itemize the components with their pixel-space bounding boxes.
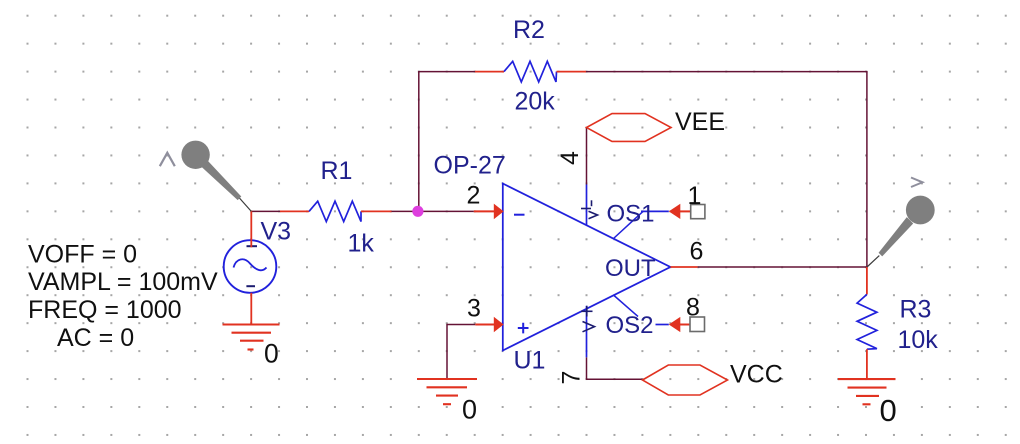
- voltage source V3 body: [224, 240, 277, 293]
- svg-text:FREQ = 1000: FREQ = 1000: [28, 296, 182, 324]
- wire: pin3 vertical to ground: [446, 324, 448, 379]
- input probe caret: [160, 153, 175, 166]
- svg-text:6: 6: [690, 238, 704, 266]
- svg-text:3: 3: [467, 295, 481, 323]
- svg-text:0: 0: [462, 395, 477, 425]
- op-amp plus sign: [518, 323, 529, 334]
- svg-text:20k: 20k: [515, 88, 556, 116]
- svg-text:VCC: VCC: [730, 361, 783, 389]
- svg-text:V3: V3: [261, 218, 292, 246]
- pin 2 connector (red arrow): [474, 210, 495, 212]
- svg-text:OS1: OS1: [607, 201, 655, 228]
- svg-text:OP-27: OP-27: [434, 152, 506, 180]
- svg-text:1k: 1k: [348, 230, 375, 258]
- V3 bottom pin (red): [250, 293, 252, 325]
- wire: junction to pin2: [419, 210, 474, 212]
- wire: feedback vertical left (junction up to top): [418, 72, 420, 212]
- wire: pin7 down: [586, 357, 588, 379]
- ground 0 at pin3: [417, 379, 477, 404]
- svg-text:0: 0: [880, 393, 897, 428]
- svg-text:VEE: VEE: [675, 108, 725, 136]
- resistor R2: [475, 71, 504, 73]
- pin 7 V+ marker: [581, 306, 595, 332]
- OS2 pin graphics: [614, 296, 638, 317]
- wire: V3 corner to R1 left: [251, 210, 280, 212]
- OS2 connector (red arrow + square pin 8): [669, 317, 681, 332]
- svg-text:2: 2: [467, 181, 481, 209]
- wire: feedback top horizontal left segment: [418, 71, 475, 73]
- svg-text:R2: R2: [513, 16, 545, 44]
- resistor R3: [866, 267, 868, 294]
- pin 4 V- marker: [581, 200, 598, 218]
- output probe marker: [867, 196, 935, 267]
- output probe caret: [911, 178, 923, 188]
- pin 3 connector (red arrow): [475, 324, 495, 326]
- ground 0 at V3: [223, 325, 280, 350]
- OS1 connector (red arrow + square pin 1): [669, 204, 681, 219]
- svg-text:U1: U1: [514, 346, 546, 374]
- svg-text:OUT: OUT: [605, 255, 656, 282]
- wire: feedback vertical right (down to output node): [866, 72, 868, 267]
- power symbol VCC (hexagon): [643, 365, 728, 395]
- OS1 pin graphics: [614, 211, 644, 238]
- pin 4 line (blue): [586, 185, 588, 226]
- svg-text:0: 0: [264, 339, 279, 369]
- svg-text:7: 7: [558, 371, 586, 385]
- wire: pin3 horizontal: [447, 324, 475, 326]
- svg-text:VOFF = 0: VOFF = 0: [28, 240, 137, 268]
- V3 top pin (red): [250, 211, 252, 248]
- power symbol VEE (hexagon): [587, 114, 672, 142]
- wire: feedback top horizontal right segment: [586, 71, 868, 73]
- svg-text:4: 4: [556, 151, 584, 165]
- resistor R1: [280, 210, 309, 212]
- wire: VEE hexagon down to pin4: [586, 128, 588, 185]
- svg-text:AC = 0: AC = 0: [57, 324, 134, 352]
- svg-text:R3: R3: [900, 296, 932, 324]
- svg-text:VAMPL = 100mV: VAMPL = 100mV: [28, 268, 218, 296]
- op-amp minus sign: [514, 214, 525, 216]
- svg-text:10k: 10k: [898, 326, 939, 354]
- pin 7 line (blue): [586, 306, 588, 358]
- node junction dot (magenta): [412, 206, 423, 217]
- wire: pin7 corner to VCC hexagon: [586, 378, 643, 380]
- pin 6 stub (red): [670, 266, 697, 268]
- svg-text:OS2: OS2: [606, 312, 654, 339]
- svg-text:R1: R1: [321, 157, 353, 185]
- op-amp U1 triangle: [503, 184, 671, 351]
- svg-text:8: 8: [686, 294, 700, 322]
- svg-text:1: 1: [688, 182, 702, 210]
- input probe marker: [181, 141, 251, 212]
- ground 0 at R3: [838, 379, 896, 404]
- wire: output to right node: [698, 266, 867, 268]
- wire: R1 right to junction: [392, 210, 419, 212]
